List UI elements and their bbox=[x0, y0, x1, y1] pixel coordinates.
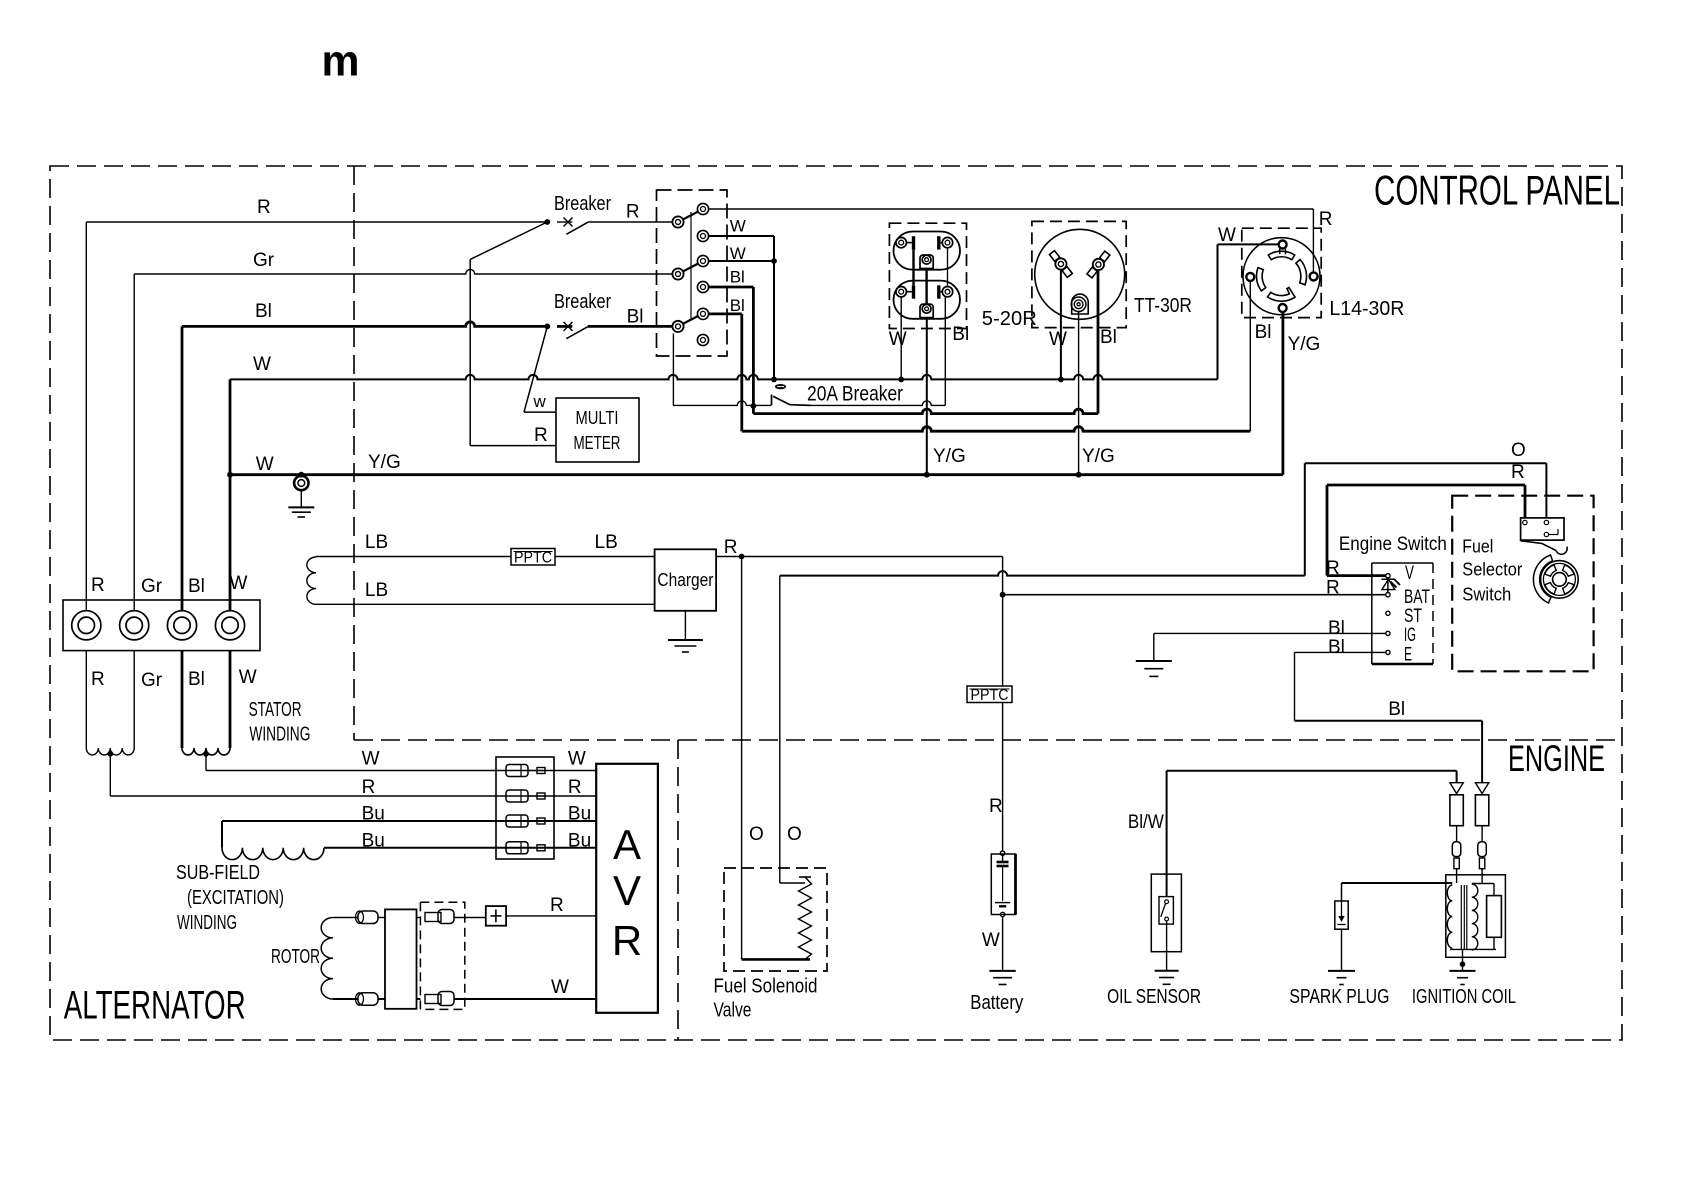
wire oil sensor to ground bbox=[1166, 921, 1168, 971]
svg-text:W: W bbox=[568, 749, 586, 770]
svg-text:OIL SENSOR: OIL SENSOR bbox=[1107, 986, 1201, 1008]
rectifier diode + box bbox=[486, 906, 506, 926]
engine switch terminal E bbox=[1386, 650, 1390, 654]
svg-text:W: W bbox=[362, 749, 380, 770]
selector gang link bbox=[690, 212, 692, 319]
svg-text:IG: IG bbox=[1404, 625, 1416, 646]
svg-text:Bu: Bu bbox=[568, 830, 591, 851]
svg-text:Y/G: Y/G bbox=[1082, 446, 1115, 467]
PPTC fuse 2 bbox=[967, 686, 1012, 703]
svg-text:R: R bbox=[724, 537, 738, 558]
svg-text:R: R bbox=[534, 425, 548, 446]
wire O to fuel solenoid valve (left) bbox=[741, 557, 743, 960]
svg-text:Bl: Bl bbox=[1328, 618, 1345, 639]
MULTI METER box bbox=[556, 398, 639, 462]
svg-text:Fuel Solenoid: Fuel Solenoid bbox=[714, 976, 818, 998]
svg-text:Valve: Valve bbox=[714, 1000, 752, 1022]
svg-text:ROTOR: ROTOR bbox=[271, 946, 320, 968]
Charger box bbox=[655, 549, 717, 611]
wire Bl to TT-30R bbox=[753, 409, 1098, 414]
wire TT-30R W down bbox=[1060, 270, 1062, 380]
rotor plug bottom bbox=[358, 993, 378, 1006]
wire battery to ground bbox=[1002, 917, 1004, 971]
svg-text:SPARK PLUG: SPARK PLUG bbox=[1289, 986, 1389, 1008]
diode 2 (Bl) bbox=[1475, 783, 1488, 794]
fuel valve body crescent bbox=[1533, 555, 1552, 603]
selector right pin 5 bbox=[697, 308, 708, 319]
svg-text:LB: LB bbox=[595, 532, 618, 553]
wire R engine switch V bbox=[1327, 574, 1386, 577]
svg-text:A: A bbox=[613, 821, 641, 868]
selector lever 1 bbox=[683, 212, 699, 220]
svg-text:W: W bbox=[256, 454, 274, 475]
engine ground (IG) bbox=[1136, 660, 1172, 662]
engine switch terminal IG bbox=[1386, 631, 1390, 635]
connector pin Bu bbox=[506, 815, 528, 827]
wire LB bottom bbox=[316, 603, 655, 605]
dashed divider between ALTERNATOR and CONTROL PANEL bbox=[353, 166, 355, 740]
svg-text:W: W bbox=[982, 930, 1000, 951]
svg-text:R: R bbox=[1511, 462, 1525, 483]
wire selector pin2 W out bbox=[709, 235, 774, 237]
svg-text:V: V bbox=[1405, 563, 1414, 584]
L14-30R terminal Bl bbox=[1246, 273, 1254, 281]
resistor 1 bbox=[1450, 795, 1463, 826]
svg-text:L14-30R: L14-30R bbox=[1329, 298, 1404, 320]
TT-30R ground pin bbox=[1072, 294, 1089, 314]
TT-30R outlet dashed box bbox=[1032, 221, 1126, 327]
svg-text:R: R bbox=[1319, 209, 1333, 230]
stator terminal Bl bbox=[167, 611, 196, 640]
svg-text:MULTI: MULTI bbox=[576, 408, 619, 428]
selector right pin 2 bbox=[697, 230, 708, 241]
selector right pin 6 bbox=[697, 334, 708, 345]
svg-text:R: R bbox=[362, 777, 376, 798]
TT-30R face circle bbox=[1035, 229, 1125, 319]
svg-text:Breaker: Breaker bbox=[554, 193, 611, 215]
wire Gr stator feed bbox=[133, 274, 135, 610]
5-20R internal jumpers bbox=[912, 250, 914, 286]
svg-text:R: R bbox=[1326, 578, 1340, 599]
wire TT-30R ground down bbox=[1078, 312, 1080, 475]
svg-text:W: W bbox=[253, 354, 271, 375]
svg-text:Selector: Selector bbox=[1462, 560, 1522, 580]
wire Bl to L14-30R bbox=[742, 427, 1251, 432]
wire from R-Gr winding tap to AVR (R) bbox=[109, 754, 111, 796]
svg-text:Fuel: Fuel bbox=[1462, 537, 1493, 557]
L14-30R outlet dashed box bbox=[1242, 228, 1321, 317]
svg-text:(EXCITATION): (EXCITATION) bbox=[187, 887, 284, 909]
ignition coil core bbox=[1460, 885, 1462, 950]
wire selector pin3 W out bbox=[709, 260, 774, 262]
svg-text:Bl: Bl bbox=[1328, 637, 1345, 658]
svg-text:W: W bbox=[1049, 329, 1067, 350]
rotor brush block bbox=[385, 909, 417, 1008]
svg-text:R: R bbox=[1326, 558, 1340, 579]
5-20R outlet dashed box bbox=[889, 223, 966, 328]
wire 5-20R ground down bbox=[926, 318, 928, 475]
resistor 2 bbox=[1475, 795, 1488, 826]
svg-text:R: R bbox=[612, 917, 642, 964]
connector block alternator-AVR bbox=[496, 757, 554, 859]
stator winding Bl-W coil bbox=[181, 651, 184, 748]
spark plug bbox=[1335, 901, 1348, 929]
battery bbox=[1000, 851, 1004, 855]
svg-text:Engine Switch: Engine Switch bbox=[1339, 534, 1447, 555]
selector lever 2 bbox=[683, 264, 699, 272]
selector right pin 3 bbox=[697, 255, 708, 266]
wire O fuel selector to valve (right) bbox=[779, 576, 781, 883]
svg-text:Gr: Gr bbox=[141, 670, 163, 691]
ignition coil box bbox=[1446, 875, 1506, 958]
svg-text:Bl/W: Bl/W bbox=[1128, 812, 1164, 833]
svg-text:O: O bbox=[1511, 440, 1526, 461]
svg-text:Bu: Bu bbox=[362, 804, 385, 825]
wire 20A breaker out to 5-20R Bl bbox=[810, 401, 945, 406]
svg-text:Bl: Bl bbox=[627, 307, 644, 328]
outer dashed border (ALTERNATOR / CONTROL PANEL / ENGINE enclosure) bbox=[50, 166, 1622, 1040]
svg-text:20A Breaker: 20A Breaker bbox=[807, 383, 903, 406]
svg-text:Bu: Bu bbox=[362, 830, 385, 851]
svg-text:Bl: Bl bbox=[1100, 327, 1117, 348]
svg-text:WINDING: WINDING bbox=[249, 724, 310, 746]
20A breaker bbox=[673, 401, 771, 406]
wire LB to charger bbox=[555, 556, 655, 558]
svg-text:W: W bbox=[730, 244, 746, 263]
ignition coil primary winding bbox=[1447, 885, 1452, 948]
fuel selector micro-switch lever bbox=[1521, 541, 1556, 551]
wire ignition coil to spark plug bbox=[1342, 882, 1453, 884]
fuel solenoid valve dashed box bbox=[724, 868, 827, 971]
TT-30R Bl pin bbox=[1085, 250, 1112, 280]
svg-text:Bl: Bl bbox=[255, 301, 272, 322]
svg-text:Bu: Bu bbox=[568, 804, 591, 825]
svg-text:5-20R: 5-20R bbox=[982, 308, 1037, 330]
svg-text:W: W bbox=[551, 977, 569, 998]
svg-text:R: R bbox=[257, 197, 271, 218]
svg-text:W: W bbox=[239, 667, 257, 688]
connector pin Bu2 bbox=[506, 842, 528, 854]
selector right pin 1 bbox=[697, 203, 708, 214]
svg-text:LB: LB bbox=[365, 532, 388, 553]
ignition coil HT block bbox=[1487, 896, 1502, 938]
wire LB top bbox=[316, 556, 511, 558]
rotor wire top bbox=[333, 917, 358, 919]
stator terminal Gr bbox=[120, 611, 149, 640]
selector left pin 2 bbox=[672, 268, 683, 279]
spark plug ground bbox=[1328, 970, 1355, 972]
wire selector pin5 Bl out bbox=[709, 312, 742, 315]
svg-text:Y/G: Y/G bbox=[933, 446, 966, 467]
oil sensor box bbox=[1151, 874, 1181, 952]
plug connector 1 bbox=[1456, 826, 1458, 842]
svg-text:E: E bbox=[1404, 645, 1412, 666]
svg-text:R: R bbox=[568, 777, 582, 798]
svg-text:W: W bbox=[889, 329, 907, 350]
ignition coil ground bbox=[1450, 970, 1476, 972]
battery ground symbol bbox=[989, 970, 1015, 972]
dashed divider between ALTERNATOR and ENGINE bbox=[677, 740, 679, 1040]
stator winding R-Gr coil bbox=[85, 651, 87, 748]
wire Bl to ignition coil bbox=[1295, 720, 1483, 722]
svg-text:ALTERNATOR: ALTERNATOR bbox=[64, 984, 246, 1028]
wire selector pin4 Bl out bbox=[709, 286, 754, 289]
wire R charger output bbox=[716, 556, 1003, 558]
rotor coil bbox=[321, 918, 333, 1000]
svg-text:O: O bbox=[749, 824, 764, 845]
svg-text:Gr: Gr bbox=[253, 250, 275, 271]
voltage selector switch block bbox=[657, 190, 728, 356]
fuel valve rotary switch bbox=[1541, 561, 1579, 599]
svg-text:Bl: Bl bbox=[1388, 699, 1405, 720]
selector left pin 3 bbox=[672, 321, 683, 332]
svg-text:R: R bbox=[91, 669, 105, 690]
wire R stator feed bbox=[85, 222, 87, 610]
L14-30R terminal W bbox=[1279, 241, 1287, 249]
rotor connector dashed box bbox=[420, 902, 464, 1009]
svg-text:W: W bbox=[1218, 225, 1236, 246]
L14-30R face circle bbox=[1243, 238, 1320, 315]
svg-text:WINDING: WINDING bbox=[177, 912, 237, 934]
5-20R lower receptacle bbox=[894, 281, 961, 319]
svg-text:Breaker: Breaker bbox=[554, 291, 611, 313]
svg-text:Bl: Bl bbox=[188, 576, 205, 597]
5-20R upper receptacle bbox=[894, 232, 961, 270]
tap from breaker Bl to multimeter (w) bbox=[524, 326, 547, 412]
PPTC fuse 1 bbox=[511, 549, 555, 566]
svg-text:Y/G: Y/G bbox=[1288, 334, 1321, 355]
ground bolt on Y/G bus bbox=[298, 472, 304, 478]
svg-text:R: R bbox=[626, 202, 640, 223]
charger winding coil bbox=[307, 557, 316, 604]
svg-text:METER: METER bbox=[574, 433, 621, 453]
wire Y/G ground bus bbox=[230, 473, 1283, 476]
svg-text:Y/G: Y/G bbox=[368, 452, 401, 473]
chassis ground symbol bbox=[288, 506, 314, 508]
svg-text:m: m bbox=[322, 37, 360, 86]
svg-text:Charger: Charger bbox=[657, 570, 713, 590]
svg-text:O: O bbox=[787, 824, 802, 845]
L14-30R terminal R bbox=[1310, 272, 1318, 280]
svg-text:Battery: Battery bbox=[970, 992, 1023, 1014]
svg-text:SUB-FIELD: SUB-FIELD bbox=[176, 862, 260, 884]
connector pin W bbox=[506, 765, 528, 777]
svg-text:R: R bbox=[91, 575, 105, 596]
svg-text:Switch: Switch bbox=[1462, 585, 1511, 605]
engine switch pilot LED bbox=[1387, 578, 1389, 593]
wire R to engine switch BAT bbox=[1003, 594, 1386, 596]
wire 5-20R W down bbox=[900, 297, 902, 379]
wire L14-30R ground down bbox=[1282, 312, 1285, 475]
svg-text:Gr: Gr bbox=[141, 576, 163, 597]
wire W bus to L14-30R bbox=[1217, 244, 1219, 379]
wire O fuel-selector run bbox=[780, 571, 1305, 576]
charger ground bbox=[684, 611, 686, 640]
selector lever 3 bbox=[683, 316, 699, 324]
selector right pin 4 bbox=[697, 281, 708, 292]
wire selector pin1 R out bbox=[709, 208, 1314, 210]
oil sensor ground bbox=[1155, 970, 1179, 972]
stator terminal W bbox=[215, 611, 244, 640]
Fuel Selector Switch dashed box bbox=[1452, 496, 1593, 672]
wire Bl engine switch E bbox=[1295, 651, 1386, 653]
svg-text:Bl: Bl bbox=[1255, 322, 1272, 343]
stator terminal block bbox=[63, 600, 260, 651]
svg-text:ST: ST bbox=[1404, 606, 1422, 627]
ignition coil secondary winding bbox=[1472, 884, 1478, 950]
svg-text:STATOR: STATOR bbox=[249, 699, 302, 721]
svg-text:CONTROL PANEL: CONTROL PANEL bbox=[1374, 167, 1620, 214]
svg-text:ENGINE: ENGINE bbox=[1508, 738, 1605, 779]
svg-text:BAT: BAT bbox=[1404, 587, 1430, 608]
wire Bl/W oil sensor to ignition coil bbox=[1167, 770, 1457, 772]
sub-field winding coil bbox=[222, 820, 596, 822]
tap from breaker R to multimeter bbox=[470, 222, 547, 259]
wire W bus (neutral) bbox=[230, 375, 1218, 380]
junction W bond to Y/G bbox=[227, 472, 233, 478]
AVR box bbox=[596, 764, 658, 1013]
rotor wire bottom bbox=[333, 998, 358, 1000]
wire Bl engine switch IG to ground bbox=[1154, 632, 1386, 634]
diode 1 (Bl/W) bbox=[1450, 783, 1463, 794]
svg-text:w: w bbox=[533, 392, 547, 411]
svg-text:Bl: Bl bbox=[952, 324, 969, 345]
plug connector 2 bbox=[1481, 826, 1483, 842]
svg-text:W: W bbox=[230, 573, 248, 594]
wire selector block to 20A breaker bbox=[672, 334, 674, 406]
svg-text:V: V bbox=[613, 867, 641, 914]
connector pin R bbox=[506, 790, 528, 802]
wire Bl stator feed bbox=[181, 326, 184, 610]
svg-text:R: R bbox=[550, 895, 564, 916]
oil sensor switch bbox=[1159, 897, 1173, 925]
TT-30R W pin bbox=[1048, 249, 1075, 279]
svg-text:Bl: Bl bbox=[188, 669, 205, 690]
svg-text:R: R bbox=[989, 796, 1003, 817]
engine switch terminal ST bbox=[1386, 611, 1390, 615]
rotor connector pin bottom bbox=[425, 995, 441, 1004]
engine switch box bbox=[1372, 562, 1433, 564]
rotor connector pin top bbox=[425, 913, 441, 922]
stator terminal R bbox=[72, 611, 101, 640]
svg-text:Bl: Bl bbox=[730, 296, 745, 315]
fuel selector micro-switch bbox=[1521, 518, 1564, 540]
svg-text:Bl: Bl bbox=[730, 268, 745, 287]
wire R charger to battery/BAT bbox=[1002, 557, 1004, 852]
wire R rectifier to AVR bbox=[506, 915, 596, 917]
engine switch terminal V bbox=[1386, 574, 1390, 578]
fuel solenoid valve internals bbox=[742, 958, 810, 961]
ignition coil bottom connection bbox=[1450, 948, 1496, 950]
wire from Bl-W winding tap to AVR (W) bbox=[205, 754, 207, 771]
svg-text:TT-30R: TT-30R bbox=[1134, 295, 1192, 317]
svg-text:IGNITION COIL: IGNITION COIL bbox=[1412, 986, 1516, 1008]
svg-text:W: W bbox=[730, 217, 746, 236]
svg-text:LB: LB bbox=[365, 580, 388, 601]
wire W stator feed bbox=[229, 379, 232, 610]
rotor plug top bbox=[358, 911, 378, 924]
wire R to L14-30R bbox=[1312, 209, 1314, 272]
L14-30R terminal Y/G bbox=[1279, 304, 1287, 312]
engine switch terminal BAT bbox=[1386, 593, 1390, 597]
dashed divider below CONTROL PANEL bbox=[354, 739, 1622, 741]
selector left pin 1 bbox=[672, 216, 683, 227]
L14-30R slot ring bbox=[1268, 251, 1294, 259]
